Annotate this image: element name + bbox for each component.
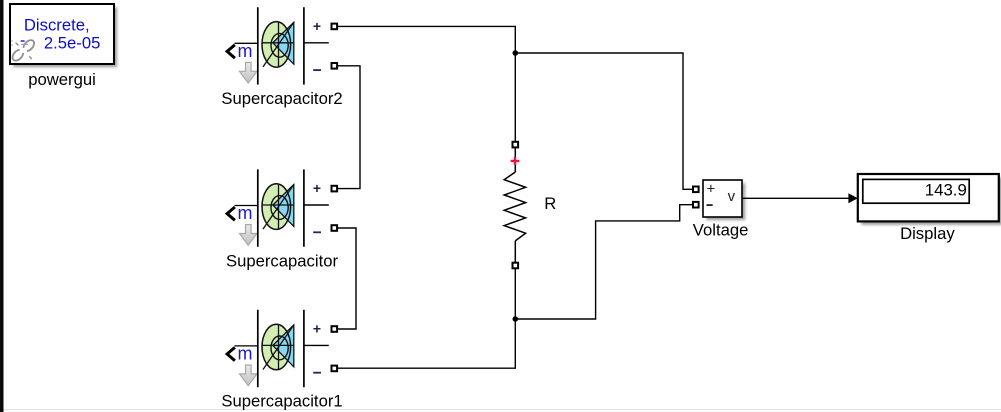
display block body: [858, 174, 999, 221]
supercapacitor Supercapacitor1: [227, 310, 337, 387]
svg-text:Display: Display: [900, 224, 955, 243]
voltage block shadow: [706, 183, 745, 220]
red polarity plus: [511, 157, 520, 165]
display block shadow: [861, 178, 1001, 226]
svg-text:powergui: powergui: [28, 70, 96, 89]
junction node A: [513, 50, 519, 56]
wire voltage output to display: [743, 197, 850, 199]
svg-text:Supercapacitor2: Supercapacitor2: [221, 89, 342, 108]
svg-text:143.9: 143.9: [925, 180, 967, 199]
powergui block body: [10, 4, 114, 64]
powergui broken-link icon: [11, 40, 34, 61]
supercapacitor Supercapacitor: [227, 169, 337, 246]
resistor R zigzag: [504, 172, 525, 241]
supercapacitor Supercapacitor2: [227, 7, 337, 84]
voltage + input port square: [693, 187, 699, 193]
wire SC- to SC1+: [337, 228, 356, 329]
wire SC2- to SC+: [337, 66, 360, 189]
wire resistor bottom to SC1-: [337, 269, 515, 369]
junction node B: [513, 316, 519, 322]
resistor top port square: [513, 142, 519, 148]
resistor R bottom lead: [514, 241, 516, 263]
display input arrowhead: [848, 193, 857, 203]
wire bottom node to Voltage -: [515, 205, 693, 319]
voltage measurement block U Voltage: [703, 180, 742, 217]
resistor R top lead: [514, 148, 516, 172]
display value field: [863, 179, 969, 203]
svg-text:v: v: [728, 188, 736, 205]
resistor bottom port square: [513, 263, 519, 269]
wire top node to Voltage +: [515, 53, 693, 189]
wire SC2+ to top node: [337, 26, 515, 141]
window left edge bar: [0, 0, 4, 412]
svg-text:Supercapacitor: Supercapacitor: [226, 251, 338, 270]
svg-text:Voltage: Voltage: [693, 220, 749, 239]
svg-text:+: +: [707, 181, 716, 198]
svg-text:Supercapacitor1: Supercapacitor1: [221, 392, 342, 411]
powergui block shadow: [13, 7, 117, 67]
window bottom edge line: [4, 409, 1001, 410]
voltage - label: [707, 204, 713, 206]
voltage - input port square: [693, 202, 699, 208]
svg-text:2.5e-05: 2.5e-05: [44, 33, 101, 52]
svg-text:R: R: [544, 194, 556, 213]
svg-text:Discrete,: Discrete,: [24, 15, 90, 34]
